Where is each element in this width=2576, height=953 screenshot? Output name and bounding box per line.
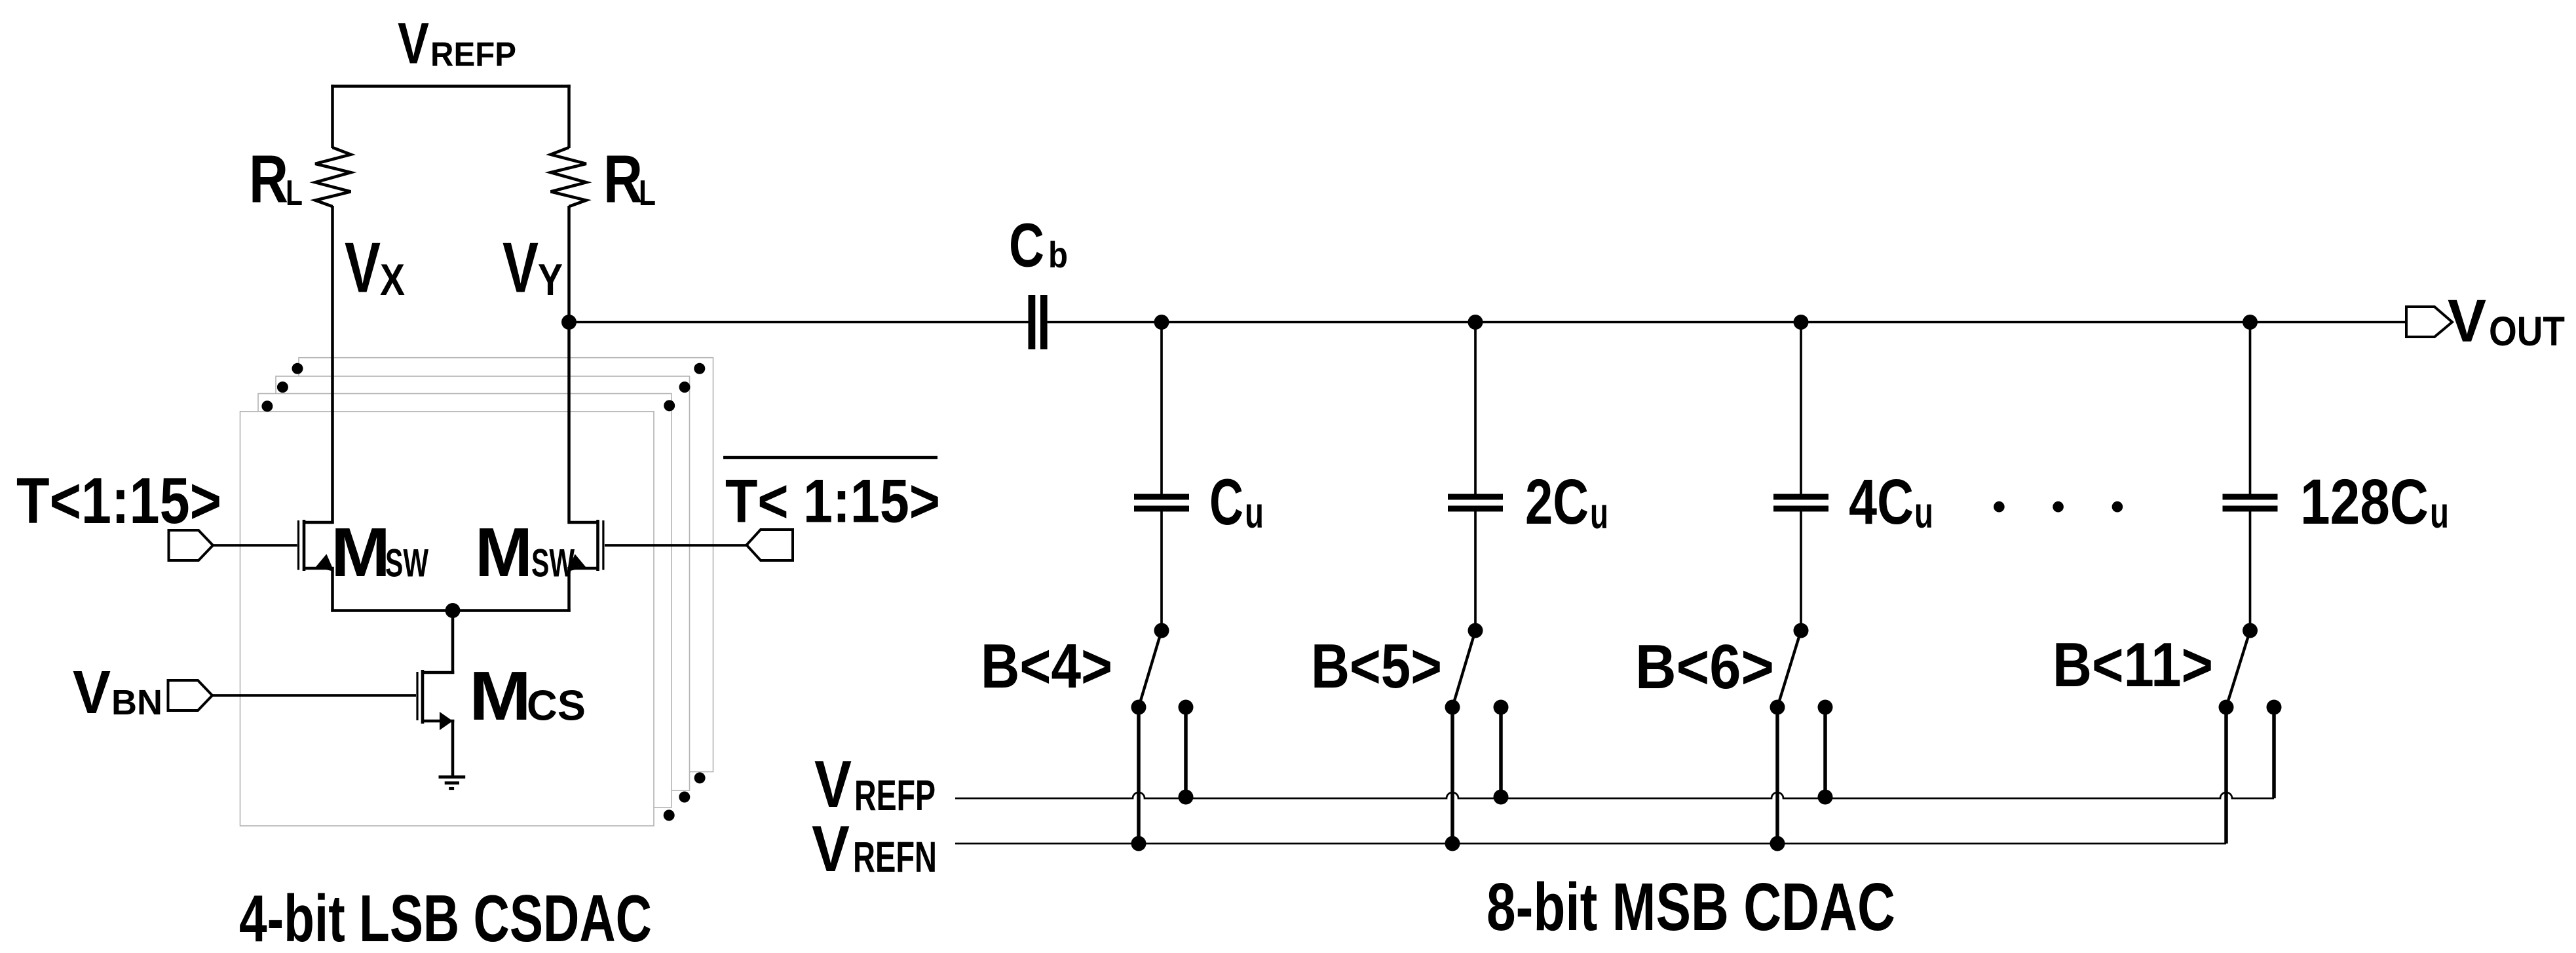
- node B<4> junction on VREFN: [1131, 836, 1146, 851]
- wire VREFP top rail: [331, 85, 570, 88]
- svg-text:u: u: [2430, 488, 2449, 537]
- transistor MSW right gate bar: [602, 520, 604, 570]
- ellipsis dots bottom-right of cell stack: [694, 772, 706, 783]
- svg-text:SW: SW: [385, 541, 428, 585]
- label T<1:15> bar overline: [723, 456, 938, 459]
- wire branch 2Cu upper: [1474, 322, 1477, 495]
- node common source junction: [445, 603, 461, 618]
- wire branch 128Cu lower: [2249, 511, 2252, 631]
- ellipsis dots between 4Cu and 128Cu: [1994, 501, 2005, 513]
- node B<6> junction on VREFP: [1818, 790, 1833, 805]
- svg-text:L: L: [639, 172, 656, 213]
- capacitor 2Cu: [1448, 494, 1503, 500]
- svg-text:b: b: [1048, 234, 1068, 275]
- node junction branch 2Cu: [1468, 315, 1483, 330]
- switch B<5> contact VREFN side: [1445, 700, 1460, 715]
- switch B<11> pivot: [2243, 623, 2258, 638]
- transistor MSW left gate bar: [297, 520, 299, 570]
- wire MSW left source down: [331, 567, 334, 612]
- transistor MSW left channel bar: [303, 520, 306, 571]
- repeated cell outline 3: [276, 376, 690, 790]
- node junction branch 4Cu: [1794, 315, 1809, 330]
- switch B<11> contact VREFP side: [2267, 700, 2282, 715]
- wire MCS source down to ground: [451, 720, 455, 777]
- repeated cell outline 2: [258, 394, 672, 808]
- svg-text:V: V: [345, 228, 381, 308]
- svg-text:V: V: [2448, 288, 2486, 355]
- svg-text:OUT: OUT: [2489, 309, 2565, 355]
- node junction branch 128Cu: [2243, 315, 2258, 330]
- transistor MSW right channel bar: [596, 520, 599, 571]
- capacitor 4Cu: [1773, 494, 1828, 500]
- switch B<11> arm: [2226, 631, 2250, 707]
- svg-text:T<1:15>: T<1:15>: [16, 464, 221, 537]
- switch B<5> contact VREFP side: [1494, 700, 1509, 715]
- resistor RL right: [551, 147, 586, 206]
- switch B<4> pivot: [1154, 623, 1169, 638]
- wire B<5> right stub to VREFP: [1499, 707, 1503, 798]
- wire branch 4Cu lower: [1800, 511, 1802, 631]
- wire VREFN rail: [955, 843, 2226, 845]
- switch B<6> pivot: [1794, 623, 1809, 638]
- svg-text:T< 1:15>: T< 1:15>: [725, 467, 940, 535]
- transistor MSW right drain: [568, 521, 599, 524]
- wire main output right of Cb: [1048, 321, 2406, 323]
- svg-text:M: M: [331, 514, 390, 591]
- ellipsis dots top-left of cell stack: [292, 363, 303, 374]
- svg-text:BN: BN: [111, 683, 162, 722]
- wire gate right MSW: [605, 544, 748, 547]
- svg-text:R: R: [603, 142, 643, 217]
- wire branch 128Cu upper: [2249, 322, 2252, 495]
- input connector T<1:15>: [169, 530, 214, 560]
- wire B<5> left stub to VREFN: [1450, 707, 1454, 844]
- wire common source rail: [331, 609, 570, 612]
- transistor MCS channel bar: [421, 670, 425, 724]
- node B<6> junction on VREFN: [1770, 836, 1785, 851]
- node B<4> junction on VREFP: [1179, 790, 1194, 805]
- svg-text:V: V: [814, 748, 852, 821]
- svg-text:4C: 4C: [1849, 466, 1914, 537]
- wire branch 4Cu upper: [1800, 322, 1802, 495]
- switch B<4> contact VREFN side: [1131, 700, 1146, 715]
- svg-text:4-bit LSB CSDAC: 4-bit LSB CSDAC: [239, 882, 652, 953]
- wire VX upper segment: [331, 85, 334, 148]
- wire VX lower segment: [331, 206, 334, 524]
- wire VY lower segment (drain): [567, 321, 571, 524]
- node B<5> junction on VREFN: [1445, 836, 1460, 851]
- switch B<5> pivot: [1468, 623, 1483, 638]
- capacitor 128Cu: [2223, 494, 2278, 500]
- svg-text:8-bit MSB CDAC: 8-bit MSB CDAC: [1487, 869, 1895, 944]
- svg-text:B<11>: B<11>: [2053, 630, 2213, 700]
- transistor MSW left source arrow: [316, 554, 334, 572]
- repeated cell outline 4 (back): [299, 358, 713, 772]
- transistor MSW left drain: [303, 521, 334, 524]
- svg-text:B<4>: B<4>: [981, 631, 1112, 701]
- svg-text:Y: Y: [538, 255, 563, 305]
- svg-text:u: u: [1590, 489, 1608, 538]
- wire branch Cu lower: [1160, 511, 1163, 631]
- resistor RL left: [315, 147, 350, 206]
- svg-text:V: V: [502, 228, 539, 308]
- switch B<4> arm: [1139, 631, 1162, 707]
- wire gate MCS: [211, 694, 416, 697]
- svg-text:M: M: [469, 657, 531, 735]
- output connector T<1:15> bar (right): [747, 530, 793, 560]
- svg-text:B<5>: B<5>: [1311, 631, 1442, 701]
- svg-text:C: C: [1009, 211, 1044, 281]
- svg-text:CS: CS: [527, 682, 586, 729]
- switch B<6> arm: [1777, 631, 1801, 707]
- transistor MSW right source arrow: [567, 554, 586, 572]
- wire branch Cu upper: [1160, 322, 1163, 495]
- svg-text:M: M: [475, 514, 533, 591]
- node junction branch Cu: [1154, 315, 1169, 330]
- svg-text:128C: 128C: [2300, 466, 2429, 537]
- ground symbol: [439, 775, 466, 779]
- repeated cell outline 1 (front): [240, 412, 654, 826]
- wire B<6> right stub to VREFP: [1823, 707, 1827, 798]
- node VY output junction: [561, 315, 577, 330]
- svg-text:B<6>: B<6>: [1635, 632, 1774, 702]
- wire B<11> left stub to VREFN: [2224, 707, 2228, 844]
- switch B<6> contact VREFN side: [1770, 700, 1785, 715]
- svg-text:R: R: [249, 142, 288, 217]
- wire B<6> left stub to VREFN: [1775, 707, 1779, 844]
- capacitor Cu: [1134, 494, 1189, 500]
- wire main output left of Cb: [569, 321, 1029, 323]
- svg-text:u: u: [1914, 488, 1933, 537]
- svg-text:u: u: [1245, 488, 1264, 537]
- node B<5> junction on VREFP: [1494, 790, 1509, 805]
- svg-text:REFP: REFP: [430, 36, 516, 74]
- wire B<4> right stub to VREFP: [1184, 707, 1188, 798]
- wire VY mid segment to node: [567, 206, 571, 322]
- wire tail down to MCS drain: [451, 610, 455, 674]
- svg-text:C: C: [1209, 465, 1243, 538]
- wire MSW right source down: [567, 567, 571, 612]
- transistor MCS gate bar: [416, 672, 418, 720]
- svg-text:REFN: REFN: [853, 832, 937, 881]
- transistor MSW left source: [303, 567, 334, 570]
- input connector VBN: [168, 680, 213, 710]
- svg-text:X: X: [380, 255, 405, 305]
- wire B<11> right stub to VREFP: [2272, 707, 2276, 798]
- switch B<11> contact VREFN side: [2219, 700, 2234, 715]
- wire branch 2Cu lower: [1474, 511, 1477, 631]
- wire B<4> left stub to VREFN: [1137, 707, 1141, 844]
- svg-text:V: V: [73, 658, 111, 726]
- svg-text:V: V: [812, 812, 850, 885]
- wire VY upper segment: [567, 85, 571, 148]
- switch B<4> contact VREFP side: [1179, 700, 1194, 715]
- svg-text:2C: 2C: [1525, 466, 1589, 537]
- transistor MCS source arrow: [440, 712, 453, 730]
- capacitor Cb: [1029, 295, 1036, 349]
- ellipsis dots top-right of cell stack: [694, 363, 705, 374]
- transistor MCS source: [421, 720, 454, 723]
- output connector VOUT: [2406, 307, 2452, 337]
- svg-text:V: V: [398, 10, 429, 76]
- svg-text:REFP: REFP: [854, 771, 936, 819]
- wire gate left MSW: [212, 544, 297, 547]
- wire VREFP rail: [955, 792, 2274, 798]
- switch B<5> arm: [1452, 631, 1475, 707]
- switch B<6> contact VREFP side: [1818, 700, 1833, 715]
- transistor MSW right source: [568, 567, 599, 570]
- svg-text:L: L: [286, 172, 303, 213]
- transistor MCS drain: [421, 671, 454, 674]
